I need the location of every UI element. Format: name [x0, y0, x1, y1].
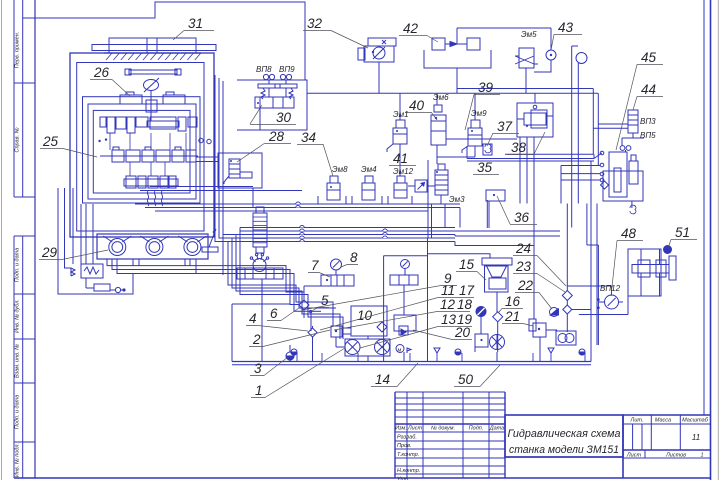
limit switch block 30 (VP8 VP9): [255, 74, 297, 130]
table hatching: [104, 53, 201, 60]
svg-text:23: 23: [515, 259, 532, 274]
wheel ellipse: [144, 78, 160, 92]
panel top valve row: [100, 117, 197, 133]
svg-text:м: м: [398, 348, 402, 354]
svg-text:16: 16: [505, 294, 521, 309]
relief valve spring box: [71, 264, 103, 278]
svg-text:Инв. № подл.: Инв. № подл.: [15, 443, 21, 477]
valve 3: [286, 345, 294, 362]
valve 36: [486, 190, 505, 228]
junction dot 5: [309, 310, 312, 313]
switch circles: [620, 138, 631, 152]
wires 42: [457, 28, 551, 93]
check 22: [563, 301, 572, 333]
title block texts: [395, 418, 709, 480]
svg-text:12: 12: [440, 297, 456, 312]
valve 21: [529, 310, 557, 352]
spindle stem: [146, 91, 157, 121]
solenoid Em8: [327, 176, 340, 200]
mount left: [120, 92, 142, 104]
svg-text:Перв. примен.: Перв. примен.: [15, 32, 21, 69]
box around 30: [237, 80, 307, 130]
gauge 16a: [476, 307, 486, 335]
svg-text:36: 36: [514, 210, 530, 225]
svg-text:Эм8: Эм8: [332, 165, 348, 174]
svg-text:ВП12: ВП12: [600, 284, 621, 293]
svg-text:Лит.: Лит.: [630, 418, 644, 424]
svg-text:Эм5: Эм5: [521, 30, 537, 39]
svg-text:Инв. № дубл.: Инв. № дубл.: [15, 299, 21, 333]
pilot valve right of Em12: [411, 180, 435, 192]
svg-text:2: 2: [252, 332, 261, 347]
wires machine to 28: [196, 157, 253, 207]
svg-text:Масштаб: Масштаб: [682, 418, 709, 424]
panel middle valve row: [100, 150, 198, 162]
wire runs: [58, 62, 629, 362]
svg-text:1: 1: [700, 453, 703, 459]
svg-text:Утв.: Утв.: [396, 477, 410, 480]
svg-text:24: 24: [515, 241, 531, 256]
mount right: [163, 92, 185, 104]
funnels 29: [103, 236, 206, 242]
svg-text:Эм6: Эм6: [433, 93, 449, 102]
spoke wheel: [490, 335, 505, 350]
svg-text:14: 14: [375, 372, 390, 387]
svg-text:38: 38: [511, 140, 527, 155]
component name labels: [256, 30, 656, 293]
svg-text:20: 20: [454, 325, 471, 340]
cross valve 9: [390, 275, 418, 335]
assembly drain: [631, 201, 633, 208]
check valve 37: [483, 144, 492, 155]
check diamond in 10: [377, 322, 387, 332]
svg-text:Дата: Дата: [489, 426, 505, 432]
cylinder 31: [92, 38, 216, 53]
svg-text:34: 34: [301, 130, 316, 145]
number labels: [39, 16, 697, 398]
svg-text:29: 29: [41, 245, 58, 260]
svg-text:30: 30: [276, 110, 292, 125]
svg-text:26: 26: [93, 65, 110, 80]
solenoid Em3 stack: [435, 164, 448, 195]
valve 2: [331, 326, 351, 347]
cylinder 7: [321, 275, 354, 286]
svg-text:32: 32: [307, 16, 323, 31]
box 10: [351, 306, 387, 339]
svg-text:22: 22: [517, 278, 534, 293]
solenoid Em9: [462, 120, 482, 153]
svg-text:50: 50: [458, 372, 474, 387]
bracket Em12: [388, 196, 412, 204]
circle right top: [572, 46, 587, 228]
svg-text:42: 42: [403, 21, 419, 36]
solenoid Em1: [387, 120, 407, 152]
svg-text:35: 35: [477, 160, 493, 175]
stack valve column: [253, 207, 267, 253]
box 20: [475, 334, 488, 347]
svg-text:Изм.: Изм.: [395, 426, 407, 432]
svg-text:43: 43: [558, 20, 574, 35]
svg-text:51: 51: [675, 225, 690, 240]
valve 43 circle: [534, 50, 556, 72]
svg-text:7: 7: [311, 258, 319, 273]
svg-text:Эм12: Эм12: [393, 167, 414, 176]
lever latch: [202, 229, 218, 252]
top wire loop: [35, 2, 305, 80]
svg-text:ВП3: ВП3: [640, 117, 656, 126]
panel box P2: [93, 110, 190, 193]
svg-text:25: 25: [42, 134, 59, 149]
svg-text:39: 39: [478, 80, 494, 95]
svg-text:Подп.: Подп.: [469, 426, 484, 432]
check valve 6: [299, 293, 309, 318]
svg-text:21: 21: [504, 309, 520, 324]
svg-text:Взам. инв. №: Взам. инв. №: [15, 344, 21, 378]
svg-text:28: 28: [268, 129, 285, 144]
box around 28: [218, 153, 262, 188]
gear pump: [556, 331, 576, 345]
frame margin labels: [15, 32, 21, 477]
hand pump unit 51: [628, 246, 676, 297]
svg-text:45: 45: [641, 50, 657, 65]
valve 32: [358, 38, 396, 62]
svg-text:31: 31: [188, 16, 203, 31]
svg-text:Эм1: Эм1: [393, 110, 409, 119]
component 42: [424, 38, 491, 68]
svg-text:6: 6: [270, 306, 278, 321]
svg-text:Лист: Лист: [626, 453, 642, 459]
machine inner box: [77, 63, 204, 232]
box 38: [517, 103, 553, 137]
svg-text:40: 40: [409, 98, 425, 113]
valve 40 Em6: [431, 93, 517, 145]
bar element 26: [125, 69, 181, 75]
svg-text:Подп. и дата: Подп. и дата: [15, 248, 21, 282]
crown valve: [237, 253, 283, 279]
check valve 4: [308, 326, 317, 362]
svg-text:ВП8: ВП8: [256, 65, 272, 74]
tank line: [232, 362, 591, 365]
svg-text:10: 10: [357, 308, 373, 323]
svg-text:Справ. №: Справ. №: [15, 127, 21, 152]
feed unit assembly 46: [600, 151, 643, 214]
panel box P0: [83, 97, 201, 203]
svg-text:15: 15: [459, 257, 475, 272]
svg-text:1: 1: [255, 383, 263, 398]
check valve 16: [493, 312, 503, 352]
svg-text:8: 8: [350, 250, 358, 265]
svg-text:17: 17: [459, 283, 475, 298]
bracket Em8: [318, 196, 346, 204]
solenoid Em5: [515, 48, 538, 93]
svg-text:Эм4: Эм4: [361, 165, 377, 174]
check 23: [562, 286, 572, 301]
small valve box: [81, 278, 110, 291]
svg-text:№ докум.: № докум.: [431, 426, 455, 432]
gauge 48 VP12: [597, 295, 618, 309]
title block name: [508, 428, 621, 456]
svg-text:4: 4: [249, 311, 257, 326]
pump unit 1 with motor: [345, 339, 404, 356]
title block grid: [395, 392, 711, 478]
gauge 15a: [401, 260, 410, 276]
svg-text:3: 3: [254, 361, 262, 376]
svg-text:ВП5: ВП5: [640, 131, 656, 140]
junction circle: [110, 287, 126, 292]
svg-text:ВП9: ВП9: [279, 65, 295, 74]
cylinders unit 29: [97, 234, 208, 259]
svg-text:Листов: Листов: [665, 453, 686, 459]
svg-text:Подп. и дата: Подп. и дата: [15, 395, 21, 429]
panel wiring: [98, 133, 211, 206]
svg-text:18: 18: [457, 297, 473, 312]
svg-text:Т.контр.: Т.контр.: [397, 452, 419, 458]
svg-text:41: 41: [393, 151, 408, 166]
svg-text:44: 44: [641, 82, 656, 97]
valve 28: [224, 159, 252, 184]
funnel unit 15: [482, 258, 512, 312]
solenoid Em4: [362, 176, 375, 200]
solenoid Em12: [394, 176, 407, 198]
svg-text:11: 11: [441, 283, 455, 298]
svg-text:Разраб.: Разраб.: [397, 435, 417, 441]
bracket Em4: [352, 196, 382, 204]
svg-text:Лист: Лист: [407, 426, 423, 432]
svg-text:37: 37: [497, 119, 513, 134]
svg-text:Масса: Масса: [655, 418, 671, 424]
svg-text:Эм9: Эм9: [471, 109, 487, 118]
switch stack 44 VP3: [622, 110, 644, 138]
drain symbols: [291, 348, 585, 362]
throttle 22a: [550, 308, 559, 317]
svg-text:Гидравлическая схема: Гидравлическая схема: [508, 428, 621, 440]
gauge 8: [331, 259, 342, 275]
panel box P1: [88, 104, 196, 199]
svg-text:48: 48: [621, 226, 637, 241]
panel bottom stack: [124, 176, 178, 188]
svg-text:Пров.: Пров.: [397, 443, 412, 449]
machine outline box: [70, 53, 214, 237]
svg-text:станка модели ЗМ151: станка модели ЗМ151: [509, 444, 619, 456]
svg-text:Н.контр.: Н.контр.: [397, 468, 420, 474]
svg-text:11: 11: [692, 433, 700, 442]
svg-text:Эм3: Эм3: [449, 195, 465, 204]
wire hop jogs: [296, 202, 388, 242]
